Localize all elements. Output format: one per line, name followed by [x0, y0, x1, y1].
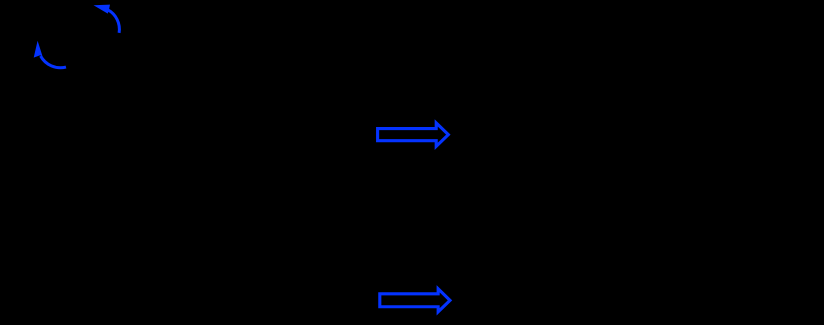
curved electron-pushing arrow B (left, head pointing up) — [34, 41, 66, 68]
arc of curved arrow A — [108, 10, 120, 33]
head of curved arrow A — [94, 5, 111, 14]
arc of curved arrow B — [41, 56, 66, 68]
curved electron-pushing arrow A (top, head pointing upper-left) — [94, 5, 120, 33]
reaction arrow 1 (open block arrow, row 1) — [378, 123, 449, 146]
reaction arrow 2 (open block arrow, row 2) — [380, 289, 450, 312]
head of curved arrow B — [34, 41, 43, 58]
